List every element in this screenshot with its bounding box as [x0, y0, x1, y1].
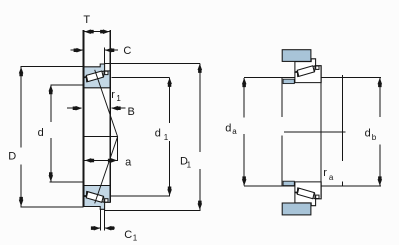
svg-text:D: D: [8, 150, 16, 162]
line of action through left bearing: [95, 70, 118, 204]
svg-text:1: 1: [164, 133, 169, 142]
svg-text:d: d: [155, 128, 161, 140]
dimension C1: [91, 226, 115, 231]
dimension da: [242, 78, 247, 186]
svg-text:a: a: [329, 173, 334, 182]
bearing section right-top (outline): [295, 59, 321, 83]
wire: left face line: [83, 30, 85, 207]
svg-text:r: r: [323, 167, 327, 179]
wire: right cone back face line: [320, 66, 322, 198]
housing block top: [282, 50, 311, 62]
wire: C extension line: [104, 48, 106, 64]
svg-text:C: C: [123, 45, 131, 57]
svg-text:a: a: [125, 156, 132, 168]
dimension C: [71, 48, 119, 53]
wire: shaft shoulder face line lower: [281, 135, 283, 185]
dimension D1: [105, 63, 202, 210]
housing block bottom: [282, 203, 311, 215]
svg-text:d: d: [38, 127, 44, 139]
svg-text:a: a: [232, 127, 237, 136]
wire: center axis line: [84, 136, 117, 138]
svg-text:1: 1: [116, 94, 121, 103]
wire: da/db bottom abutment extension line: [244, 185, 381, 187]
wire: ra reference line: [341, 75, 343, 161]
svg-text:b: b: [372, 133, 377, 142]
svg-text:1: 1: [187, 161, 192, 170]
svg-text:B: B: [128, 106, 135, 118]
wire: right face line: [109, 30, 111, 202]
wire: pressure-center tick: [117, 137, 119, 161]
dimension D: [19, 67, 84, 207]
svg-text:T: T: [83, 14, 90, 26]
wire: shaft shoulder face line upper: [281, 78, 283, 117]
bearing section left-bottom (mirrored): [84, 185, 110, 209]
wire: C1 extension lines: [99, 209, 101, 230]
svg-text:1: 1: [133, 233, 138, 242]
dimension B: [67, 106, 125, 111]
shaft shoulder tab bottom: [283, 181, 294, 185]
svg-text:d: d: [365, 128, 371, 140]
dimension T: [84, 29, 109, 34]
svg-text:C: C: [124, 229, 132, 241]
bearing section right-bottom (outline, mirrored): [295, 182, 321, 206]
wire: right figure axis line: [284, 131, 345, 133]
shaft shoulder tab top: [283, 79, 294, 83]
dimension a: [85, 158, 118, 163]
wire: da/db top abutment extension line: [244, 77, 381, 79]
svg-text:r: r: [111, 89, 115, 101]
dimension db: [378, 78, 383, 186]
dimension d: [49, 85, 83, 182]
svg-text:d: d: [225, 122, 231, 134]
bearing section left-top: cup, roller, cone: [84, 64, 110, 88]
dimension d1: [111, 77, 172, 196]
